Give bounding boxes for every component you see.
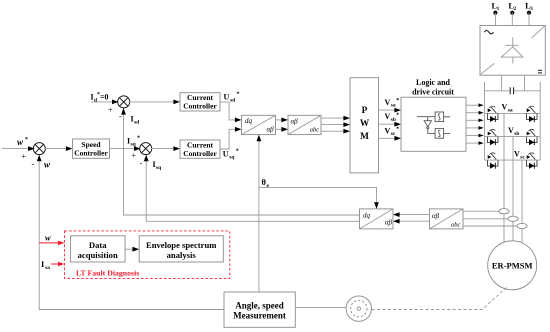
wire Usd* to dq box xyxy=(220,102,240,120)
IGBT switch S3 xyxy=(488,129,499,145)
DC link capacitor xyxy=(509,87,511,94)
svg-text:U: U xyxy=(223,150,229,159)
svg-text:U: U xyxy=(224,93,230,102)
wire speed reference input xyxy=(2,148,33,150)
rectifier diagonal bottom-left xyxy=(481,63,495,74)
svg-text:*: * xyxy=(25,137,28,143)
svg-text:αβ: αβ xyxy=(432,212,440,220)
IGBT switch S6 xyxy=(527,153,538,169)
red wire w to data acquisition xyxy=(39,242,59,244)
terminal dot L1 xyxy=(493,11,497,15)
theta wire branch to reverse dq box xyxy=(259,187,377,207)
wire sensor b to abc box xyxy=(463,218,508,220)
wire L1 to rectifier xyxy=(494,13,496,26)
svg-text:*: * xyxy=(236,149,239,155)
gate driver inner schematic xyxy=(417,112,450,138)
svg-text:Envelope spectrum: Envelope spectrum xyxy=(146,240,217,250)
IGBT switch S1 xyxy=(488,106,499,122)
phase b output wire xyxy=(512,137,514,241)
rectifier DC symbol xyxy=(538,70,542,73)
current sensor phase c xyxy=(517,223,527,228)
svg-text:V: V xyxy=(385,98,391,107)
wire Usq* to dq box xyxy=(220,129,240,149)
inverter left rail xyxy=(484,82,486,160)
inverter leg phase b row xyxy=(485,136,541,138)
svg-text:P: P xyxy=(362,106,368,116)
reverse dq transform box xyxy=(360,209,394,229)
alpha-beta to abc box xyxy=(288,115,321,134)
svg-text:w: w xyxy=(17,137,24,147)
speed feedback wire to speed junction xyxy=(39,155,224,309)
rectifier AC symbol xyxy=(484,31,493,34)
svg-text:=0: =0 xyxy=(100,93,109,102)
wire PWM to logic Vsb* xyxy=(379,123,400,125)
theta wire from measurement up to forward dq box xyxy=(258,136,260,292)
svg-text:*: * xyxy=(396,127,399,133)
gate wires logic box to inverter (6 arrows) xyxy=(466,103,484,144)
svg-text:V: V xyxy=(514,150,520,159)
svg-text:-: - xyxy=(119,112,122,121)
svg-text:Controller: Controller xyxy=(74,149,108,158)
mechanical coupling dashed wire encoder to motor xyxy=(372,288,507,310)
logic and drive circuit box xyxy=(401,97,466,151)
svg-text:sd: sd xyxy=(134,120,139,126)
svg-text:+: + xyxy=(132,151,137,160)
svg-text:Data: Data xyxy=(89,240,107,250)
wire rectifier to DC rail left xyxy=(501,75,503,91)
svg-text:sa: sa xyxy=(45,265,50,271)
inverter right rail xyxy=(539,82,541,160)
red wire Isa to data acquisition xyxy=(51,263,59,265)
inverter leg phase c row xyxy=(485,159,541,161)
svg-text:-: - xyxy=(140,159,143,168)
speed controller box xyxy=(73,139,110,158)
svg-text:analysis: analysis xyxy=(167,250,197,260)
wire abc to PWM phase b xyxy=(321,124,349,126)
svg-text:Measurement: Measurement xyxy=(233,311,286,321)
terminal dot L2 xyxy=(510,11,514,15)
svg-text:-: - xyxy=(32,160,35,169)
svg-text:drive circuit: drive circuit xyxy=(412,88,454,97)
svg-text:*: * xyxy=(396,98,399,104)
svg-text:αβ: αβ xyxy=(267,125,275,133)
wire junction1 to speed controller xyxy=(44,148,71,150)
wire abc to dq feedback (top) xyxy=(395,214,430,216)
svg-text:W: W xyxy=(360,119,370,129)
IGBT switch S5 xyxy=(488,153,499,169)
svg-text:V: V xyxy=(508,126,514,135)
encoder xyxy=(346,296,371,321)
wire dq box to abc box (bottom) xyxy=(276,128,287,130)
current controller 1 box xyxy=(180,93,220,111)
phase c output wire xyxy=(521,160,523,243)
rectifier diode xyxy=(501,37,523,63)
svg-text:d: d xyxy=(94,98,97,104)
wire rectifier to DC rail right xyxy=(524,75,526,91)
svg-text:dq: dq xyxy=(363,211,371,219)
wire speed controller to q junction xyxy=(110,148,140,150)
svg-text:M: M xyxy=(360,132,369,142)
terminal dot L3 xyxy=(527,11,531,15)
svg-text:abc: abc xyxy=(451,222,461,229)
angle speed measurement box xyxy=(224,292,295,327)
wire abc to PWM phase c xyxy=(321,130,349,132)
svg-text:+: + xyxy=(22,152,27,161)
wire abc to dq feedback (bottom) xyxy=(395,220,430,222)
wire L2 to rectifier xyxy=(511,13,513,26)
svg-text:V: V xyxy=(385,112,391,121)
wire data acquisition to envelope analysis xyxy=(125,248,132,250)
red dashed diagnosis boundary xyxy=(65,231,230,279)
PWM box xyxy=(350,78,379,173)
svg-text:+: + xyxy=(108,106,113,115)
svg-text:*: * xyxy=(396,112,399,118)
IGBT switch S2 xyxy=(527,106,538,122)
current sensor phase b xyxy=(508,216,518,221)
reverse abc to alpha-beta box xyxy=(430,209,464,229)
wire abc to PWM phase a xyxy=(321,117,349,119)
dq to alpha-beta box xyxy=(242,115,276,134)
wire isd feedback to d junction xyxy=(124,109,360,215)
svg-text:sd: sd xyxy=(230,98,235,104)
svg-text:sb: sb xyxy=(391,117,396,123)
summing junction q current xyxy=(140,143,152,155)
wire PWM to logic Vsc* xyxy=(379,137,400,139)
svg-text:*: * xyxy=(137,136,140,142)
wire measurement box to encoder xyxy=(295,307,346,309)
svg-text:Controller: Controller xyxy=(183,102,217,111)
IGBT switch S4 xyxy=(527,129,538,145)
wire dq box to abc box (top) xyxy=(276,119,287,121)
wire q junction to current controller 2 xyxy=(151,148,179,150)
svg-text:V: V xyxy=(385,126,391,135)
svg-text:sa: sa xyxy=(508,108,513,114)
wire sensor a to abc box xyxy=(463,210,499,212)
svg-text:sb: sb xyxy=(514,131,519,137)
inverter leg phase a row xyxy=(485,112,541,114)
svg-text:acquisition: acquisition xyxy=(78,250,118,260)
wire sensor c to abc box xyxy=(463,225,517,227)
motor ER-PMSM xyxy=(488,241,537,290)
svg-text:sc: sc xyxy=(391,131,396,137)
phase a output wire xyxy=(503,113,505,242)
wire L3 to rectifier xyxy=(528,13,530,26)
svg-text:abc: abc xyxy=(310,127,320,134)
svg-text:V: V xyxy=(502,103,508,112)
wire isq feedback to q junction xyxy=(146,155,359,221)
svg-text:Controller: Controller xyxy=(183,149,217,158)
envelope spectrum analysis box xyxy=(139,236,223,262)
svg-text:w: w xyxy=(45,233,51,243)
svg-text:ER-PMSM: ER-PMSM xyxy=(492,261,533,271)
wire Id*=0 input xyxy=(91,101,117,103)
summing junction d current xyxy=(118,96,130,108)
wire d junction to current controller 1 xyxy=(129,101,179,103)
wire PWM to logic Vsa* xyxy=(379,109,400,111)
svg-text:LT Fault Diagnosis: LT Fault Diagnosis xyxy=(76,269,139,278)
svg-text:αβ: αβ xyxy=(291,118,299,126)
svg-text:*: * xyxy=(237,92,240,98)
data acquisition box xyxy=(70,236,125,262)
svg-text:Angle, speed: Angle, speed xyxy=(235,300,284,310)
rectifier diagonal top-right xyxy=(532,26,545,38)
svg-text:sa: sa xyxy=(391,103,396,109)
DC rail xyxy=(485,90,511,92)
svg-text:w: w xyxy=(44,160,51,170)
current sensor phase a xyxy=(499,209,509,214)
summing junction speed xyxy=(33,143,45,155)
svg-text:sc: sc xyxy=(520,155,525,161)
svg-text:Logic and: Logic and xyxy=(416,78,451,87)
svg-text:αβ: αβ xyxy=(385,219,393,227)
rectifier box xyxy=(480,26,545,76)
current controller 2 box xyxy=(180,140,220,158)
svg-text:dq: dq xyxy=(245,117,253,125)
